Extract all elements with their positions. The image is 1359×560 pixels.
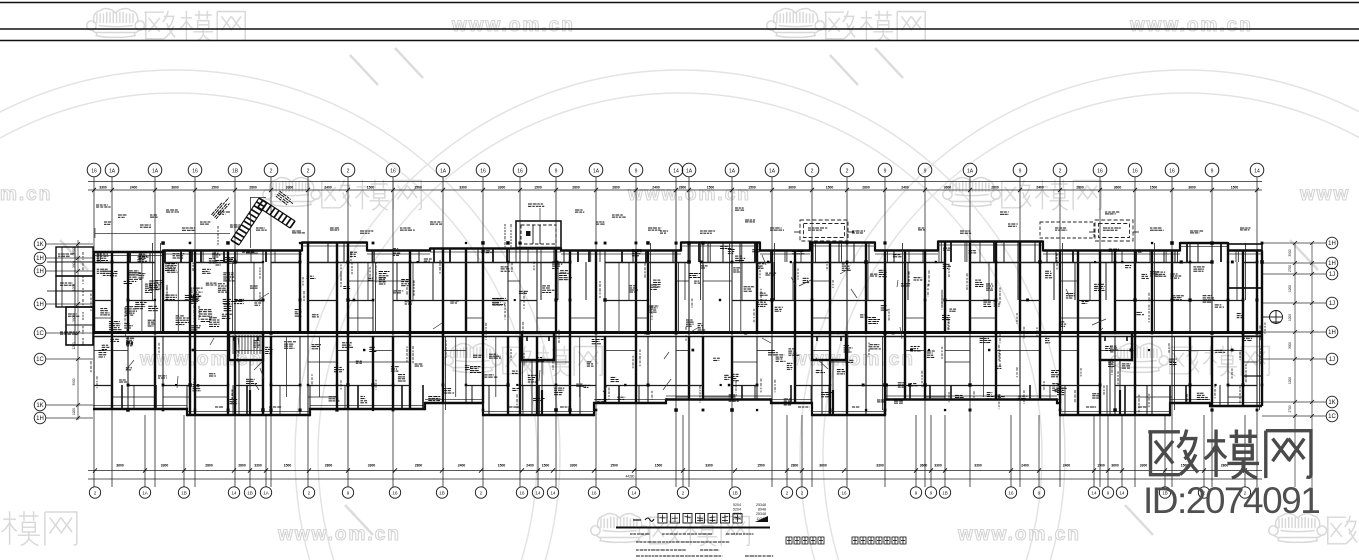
svg-text:3300: 3300 xyxy=(99,185,107,189)
svg-text:1500: 1500 xyxy=(1231,185,1239,189)
stair corridor verticals x=1100 xyxy=(1110,360,1120,414)
svg-text:8948: 8948 xyxy=(758,508,766,512)
svg-text:1B: 1B xyxy=(247,491,253,496)
svg-text:1500: 1500 xyxy=(655,464,663,468)
svg-text:25348: 25348 xyxy=(756,512,766,516)
svg-text:14: 14 xyxy=(231,491,237,496)
bottom dimension line 2 xyxy=(88,478,1262,480)
svg-text:1500: 1500 xyxy=(757,464,765,468)
bottom dimension ticks and numbers xyxy=(93,464,1247,479)
svg-text:1500: 1500 xyxy=(1097,464,1105,468)
svg-text:2: 2 xyxy=(811,168,814,174)
annotations above top wall xyxy=(95,205,1251,238)
svg-text:2800: 2800 xyxy=(572,185,580,189)
elevator box with dashed inner at x=516 xyxy=(516,221,561,248)
svg-text:2800: 2800 xyxy=(1221,464,1229,468)
building mid spine inner line xyxy=(93,336,1262,338)
svg-text:16: 16 xyxy=(519,491,525,496)
svg-text:3600: 3600 xyxy=(788,185,796,189)
svg-text:2400: 2400 xyxy=(324,185,332,189)
svg-text:3300: 3300 xyxy=(459,185,467,189)
svg-text:www.om.cn: www.om.cn xyxy=(957,524,1081,545)
svg-text:www.om.cn: www.om.cn xyxy=(791,349,915,370)
svg-text:1J: 1J xyxy=(1329,272,1335,278)
stair corridor verticals x=522 xyxy=(532,360,542,414)
svg-text:www.om.cn: www.om.cn xyxy=(277,524,401,545)
building bottom exterior wall xyxy=(93,398,1262,416)
svg-text:1500: 1500 xyxy=(534,185,542,189)
svg-text:2400: 2400 xyxy=(652,185,660,189)
svg-text:3600: 3600 xyxy=(1114,185,1122,189)
left annex dimension specks xyxy=(58,252,83,346)
title text xyxy=(633,514,742,524)
double wall companion lines xyxy=(152,243,1259,410)
svg-text:1B: 1B xyxy=(732,491,738,496)
vertical walls xyxy=(94,242,1262,416)
svg-text:3300: 3300 xyxy=(254,464,262,468)
svg-text:2700: 2700 xyxy=(1288,265,1292,272)
top border line 1 xyxy=(0,2,1359,4)
building top exterior wall xyxy=(93,241,1262,254)
svg-text:1A: 1A xyxy=(109,168,116,174)
svg-text:44280: 44280 xyxy=(626,475,635,479)
svg-text:1C: 1C xyxy=(36,357,44,363)
svg-text:3300: 3300 xyxy=(368,464,376,468)
dashed utility box right xyxy=(1040,222,1094,238)
svg-text:14: 14 xyxy=(1254,168,1260,174)
balcony at x=1095 xyxy=(1089,220,1139,241)
top dimension ticks and numbers xyxy=(92,185,1259,192)
bay rotated text specks right xyxy=(276,191,294,207)
svg-text:1500: 1500 xyxy=(284,464,292,468)
interior horizontal partitions xyxy=(94,263,1257,398)
svg-text:1H: 1H xyxy=(36,256,44,262)
svg-text:16: 16 xyxy=(392,491,398,496)
svg-text:2800: 2800 xyxy=(791,464,799,468)
svg-text:3300: 3300 xyxy=(498,185,506,189)
svg-text:16: 16 xyxy=(192,168,198,174)
bottom axis circles xyxy=(89,487,1250,498)
svg-text:2800: 2800 xyxy=(205,464,213,468)
angled entrance stair flight right xyxy=(258,200,295,228)
svg-text:1500: 1500 xyxy=(211,185,219,189)
svg-text:3600: 3600 xyxy=(1188,185,1196,189)
svg-text:2400: 2400 xyxy=(130,185,138,189)
svg-text:1200: 1200 xyxy=(72,408,76,415)
title underline xyxy=(616,527,770,529)
svg-text:2400: 2400 xyxy=(1021,464,1029,468)
svg-text:14: 14 xyxy=(1091,491,1097,496)
svg-text:3900: 3900 xyxy=(1288,249,1292,256)
svg-text:1500: 1500 xyxy=(367,185,375,189)
svg-text:2400: 2400 xyxy=(1036,185,1044,189)
svg-text:1J: 1J xyxy=(1329,301,1335,307)
svg-text:1B: 1B xyxy=(232,168,239,174)
vertical dimension specks near walls xyxy=(91,251,1265,412)
upper band small-room verticals xyxy=(98,242,1238,263)
svg-text:3600: 3600 xyxy=(116,464,124,468)
svg-text:16: 16 xyxy=(517,168,523,174)
svg-text:1200: 1200 xyxy=(1288,377,1292,384)
svg-text:1A: 1A xyxy=(263,491,269,496)
extra bottom axis grid stubs xyxy=(145,415,1245,487)
svg-text:3900: 3900 xyxy=(1288,342,1292,349)
structural column squares xyxy=(93,241,1264,412)
stair box at x=522 xyxy=(522,333,554,360)
svg-text:2700: 2700 xyxy=(1288,405,1292,412)
svg-text:2800: 2800 xyxy=(991,185,999,189)
svg-text:1500: 1500 xyxy=(1150,185,1158,189)
svg-text:14: 14 xyxy=(550,491,556,496)
svg-text:1500: 1500 xyxy=(610,464,618,468)
svg-text:2800: 2800 xyxy=(679,185,687,189)
left annex rooms xyxy=(47,247,93,345)
right level symbol circle with cross xyxy=(1262,311,1283,324)
bottom dimension line 1 xyxy=(88,470,1262,472)
svg-text:3600: 3600 xyxy=(171,185,179,189)
right axis circles and leaders xyxy=(1262,237,1338,422)
svg-text:2800: 2800 xyxy=(325,464,333,468)
svg-text:1J: 1J xyxy=(1329,357,1335,363)
stair box at x=229 xyxy=(229,333,263,360)
svg-text:14: 14 xyxy=(673,168,679,174)
svg-text:3300: 3300 xyxy=(1140,464,1148,468)
svg-text:1H: 1H xyxy=(36,416,44,422)
svg-text:14: 14 xyxy=(631,491,637,496)
svg-text:2: 2 xyxy=(1059,168,1062,174)
bay vertical reference line xyxy=(246,197,266,253)
svg-text:www.om.cn: www.om.cn xyxy=(1129,15,1253,36)
svg-text:2: 2 xyxy=(347,168,350,174)
svg-text:1K: 1K xyxy=(36,403,43,409)
svg-text:16: 16 xyxy=(1169,168,1175,174)
stair box at x=812 xyxy=(812,333,846,360)
svg-text:9: 9 xyxy=(924,168,927,174)
svg-text:3300: 3300 xyxy=(974,464,982,468)
svg-text:9: 9 xyxy=(555,168,558,174)
svg-text:2400: 2400 xyxy=(1063,464,1071,468)
svg-text:3600: 3600 xyxy=(1111,464,1119,468)
svg-text:2: 2 xyxy=(307,168,310,174)
bay rotated text specks left xyxy=(211,196,232,218)
svg-text:1C: 1C xyxy=(1328,414,1336,420)
leader lines xyxy=(125,255,1106,392)
svg-text:9: 9 xyxy=(884,168,887,174)
thin partitions xyxy=(142,262,984,397)
svg-text:3300: 3300 xyxy=(286,185,294,189)
svg-text:www: www xyxy=(1299,184,1350,205)
svg-text:1500: 1500 xyxy=(414,185,422,189)
svg-text:1500: 1500 xyxy=(826,185,834,189)
svg-text:1H: 1H xyxy=(36,269,44,275)
svg-text:2800: 2800 xyxy=(415,464,423,468)
svg-text:1K: 1K xyxy=(36,242,43,248)
svg-text:9: 9 xyxy=(1211,168,1214,174)
svg-text:1A: 1A xyxy=(152,168,159,174)
svg-text:2800: 2800 xyxy=(862,185,870,189)
notes lines xyxy=(630,534,773,556)
svg-text:1500: 1500 xyxy=(707,185,715,189)
building top wall inner line xyxy=(93,245,1262,256)
stair corridor verticals x=812 xyxy=(822,360,833,414)
angled entrance stair flight left xyxy=(231,198,267,245)
svg-text:2400: 2400 xyxy=(901,185,909,189)
bay dim specks xyxy=(218,226,255,252)
svg-text:2400: 2400 xyxy=(458,464,466,468)
lower band small-room verticals xyxy=(122,385,1220,415)
svg-text:1500: 1500 xyxy=(748,185,756,189)
svg-text:3600: 3600 xyxy=(819,464,827,468)
svg-text:1C: 1C xyxy=(36,331,44,337)
elevator leader text xyxy=(528,204,544,206)
top dimension line 2 xyxy=(88,189,1262,191)
svg-text:1H: 1H xyxy=(1328,261,1336,267)
svg-text:1B: 1B xyxy=(942,491,948,496)
watermark row 1 xyxy=(87,9,145,38)
svg-text:5204: 5204 xyxy=(733,508,741,512)
svg-text:16: 16 xyxy=(1008,491,1014,496)
building bottom wall inner line xyxy=(93,396,1262,412)
stair box at x=1100 xyxy=(1100,333,1132,360)
svg-text:2800: 2800 xyxy=(1076,185,1084,189)
svg-text:ID:2074091: ID:2074091 xyxy=(1143,480,1319,521)
right end rooms xyxy=(1228,244,1262,376)
svg-text:14: 14 xyxy=(535,491,541,496)
stair corridor verticals x=229 xyxy=(239,360,250,414)
svg-text:1A: 1A xyxy=(769,168,776,174)
svg-text:1A: 1A xyxy=(686,168,693,174)
elevator dim column xyxy=(505,224,511,247)
oumo logo CJK xyxy=(1148,430,1311,479)
mid band closet verticals xyxy=(254,262,1237,300)
svg-text:m.cn: m.cn xyxy=(0,184,52,205)
svg-text:1A: 1A xyxy=(593,168,600,174)
building mid spine wall xyxy=(93,331,1262,334)
svg-text:2800: 2800 xyxy=(238,464,246,468)
svg-text:16: 16 xyxy=(1132,168,1138,174)
top border line 3 xyxy=(0,40,1359,42)
mini level table xyxy=(733,503,766,521)
svg-text:1K: 1K xyxy=(1328,400,1335,406)
svg-text:25348: 25348 xyxy=(756,503,766,507)
balcony at x=800 xyxy=(794,220,854,241)
watermark row 4 xyxy=(0,511,77,545)
svg-text:5204: 5204 xyxy=(733,503,741,507)
svg-text:1A: 1A xyxy=(729,168,736,174)
svg-text:16: 16 xyxy=(390,168,396,174)
svg-text:2: 2 xyxy=(270,168,273,174)
svg-text:1A: 1A xyxy=(440,168,447,174)
svg-text:1H: 1H xyxy=(1328,241,1336,247)
svg-text:1B: 1B xyxy=(181,491,187,496)
top axis circles xyxy=(87,163,1264,177)
left vertical dimension line xyxy=(77,240,79,420)
svg-text:9: 9 xyxy=(1019,168,1022,174)
svg-text:3300: 3300 xyxy=(876,464,884,468)
top border line 2 xyxy=(0,28,1359,30)
svg-text:3300: 3300 xyxy=(705,464,713,468)
left axis circles and leaders xyxy=(34,238,93,424)
right vertical dimension lines xyxy=(1294,243,1296,487)
vertical axis grid lines xyxy=(94,177,1257,487)
svg-text:3600: 3600 xyxy=(920,464,928,468)
svg-text:1A: 1A xyxy=(967,168,974,174)
svg-text:1500: 1500 xyxy=(542,464,550,468)
svg-text:16: 16 xyxy=(841,491,847,496)
title pointer flag xyxy=(755,516,768,522)
svg-text:2400: 2400 xyxy=(526,464,534,468)
svg-text:16: 16 xyxy=(1097,168,1103,174)
svg-text:1200: 1200 xyxy=(1288,314,1292,321)
svg-text:14: 14 xyxy=(1119,491,1125,496)
annotation text clusters inside plan xyxy=(97,246,1253,405)
svg-text:3600: 3600 xyxy=(944,185,952,189)
top dimension line 1 xyxy=(88,181,1262,183)
svg-text:1H: 1H xyxy=(1328,330,1336,336)
notes bold char groups xyxy=(786,537,906,544)
svg-text:16: 16 xyxy=(591,491,597,496)
svg-text:3300: 3300 xyxy=(934,464,942,468)
svg-text:1B: 1B xyxy=(439,491,445,496)
svg-text:3300: 3300 xyxy=(570,464,578,468)
svg-text:9: 9 xyxy=(635,168,638,174)
svg-text:www.om.cn: www.om.cn xyxy=(451,15,575,36)
svg-text:2800: 2800 xyxy=(249,185,257,189)
svg-text:2800: 2800 xyxy=(612,185,620,189)
svg-text:1200: 1200 xyxy=(1288,285,1292,292)
svg-text:1A: 1A xyxy=(142,491,148,496)
svg-text:16: 16 xyxy=(91,168,97,174)
svg-text:3900: 3900 xyxy=(72,378,76,385)
svg-text:3300: 3300 xyxy=(161,464,169,468)
svg-text:2: 2 xyxy=(846,168,849,174)
svg-text:16: 16 xyxy=(480,168,486,174)
svg-text:1500: 1500 xyxy=(498,464,506,468)
svg-text:1H: 1H xyxy=(36,302,44,308)
